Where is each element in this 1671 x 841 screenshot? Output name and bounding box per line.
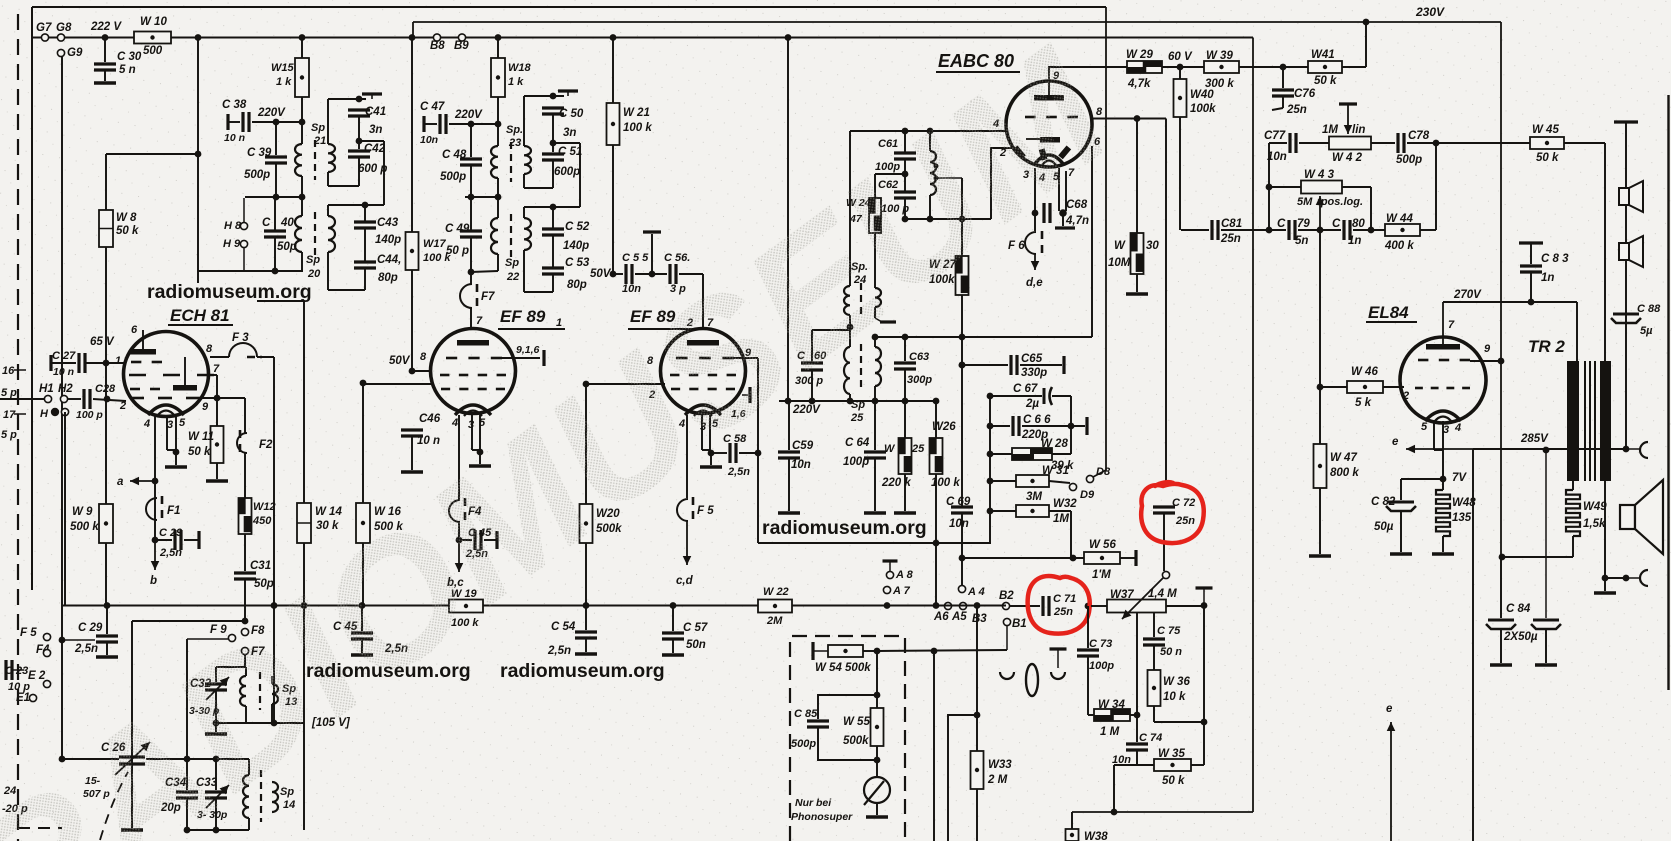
wire W18 lower lead [497,97,499,124]
wire C48 column [470,124,472,157]
el84 pin3 stem [1442,421,1444,479]
ef1 pin4 stem [458,415,460,500]
terminal F7 term [241,647,248,654]
node Sp24 feed [785,34,792,41]
svg-text:C 6 6: C 6 6 [1023,414,1051,426]
svg-text:W12: W12 [253,501,276,513]
svg-text:C: C [1277,218,1286,230]
wire A8 stem [889,561,891,571]
wire q into tube [1006,131,1041,139]
wire C47 to 220V [449,123,498,125]
node W26 low [933,540,940,547]
wire C52-C53 [552,235,554,268]
wire W32 left [990,510,1016,512]
svg-text:2µ: 2µ [1025,398,1039,410]
wire 50V to C55 [613,273,623,275]
svg-text:500: 500 [143,45,163,57]
svg-text:50 k: 50 k [188,446,211,458]
contact F6 [1025,232,1036,254]
node C57 bus [670,602,677,609]
terminal G8 [57,34,64,41]
wire osc bottom line [216,722,304,724]
capacitor C33 [205,790,227,793]
capacitor C74 [1126,742,1148,745]
wire W38 riser [1071,812,1073,829]
wire C66 left [990,425,1010,427]
node C29low link [59,637,66,644]
svg-text:25n: 25n [1286,104,1307,116]
node W26 top [933,398,940,405]
node bottom return junction [1111,809,1118,816]
capacitor C32 [205,682,227,685]
node tap2 [934,176,939,181]
svg-text:2 M: 2 M [987,774,1008,786]
cathode EABC80 [1034,155,1064,165]
terminal E1 [29,694,36,701]
resistor W37 volume pot [1107,600,1166,613]
wire sec2 top lead [327,205,329,216]
capacitor C83 [1520,264,1542,267]
capacitor C61 [894,151,916,154]
wire rail2 top link [553,142,580,144]
node C41 top [356,96,363,103]
capacitor C84 left [1488,619,1514,622]
wire rail top link [359,140,384,142]
node C61 top [902,128,909,135]
C29b end bar [197,531,200,549]
wire C43 upper [364,205,366,222]
wire C45 lead low [361,606,363,631]
wire C26 link [62,758,119,760]
wire C67 left [990,395,1042,397]
svg-text:17: 17 [3,409,16,421]
wire F2 column upper [244,398,246,433]
wire x1071 rail [1070,396,1072,454]
wire C29b bar link [184,539,199,541]
svg-text:40: 40 [280,217,294,229]
cathode EF89-2 [685,405,721,415]
wire pin7 out [214,374,217,376]
bar top C50 [558,89,578,92]
node C67 left [987,393,994,400]
wire can1 low top link [328,204,384,206]
wire main supply bus y37 [32,37,1253,39]
ef2 pin3 stem [701,415,703,450]
wire x1166 drop [1165,119,1167,482]
wire C30 lead [104,38,106,63]
arrow b [154,540,156,570]
svg-text:C 88: C 88 [1637,303,1661,315]
svg-text:80: 80 [1352,218,1365,230]
wire F9 link [187,638,229,640]
capacitor C65 [1009,355,1012,375]
inductor osc coil [930,151,936,195]
node C63 x337 [902,334,909,341]
svg-text:C 23: C 23 [5,665,28,677]
svg-text:C78: C78 [1408,130,1430,142]
transformer TR2 secondary [1600,361,1611,481]
svg-text:B2: B2 [999,590,1014,602]
wire C46 lower [411,436,413,470]
eabc pin9 stem [1048,66,1050,95]
wire W16 to 50V [363,382,412,384]
svg-text:W49: W49 [1583,501,1607,513]
capacitor C67 electrolytic [1043,388,1046,404]
terminal H1 [44,395,51,402]
wire x132 vertical [131,621,133,828]
ef2 cathode ground lead [710,453,712,465]
wire bar stem x1204 [1203,588,1205,605]
node tap1 [934,164,939,169]
tube EF89-1 envelope [431,329,516,414]
resistor W39 [1204,61,1239,73]
wire C54 ground lead [585,638,587,652]
wire C56 to pin7 [679,273,703,275]
bar W56 end [1134,550,1137,566]
wire C76 tail [1272,108,1283,110]
node W14 bus [301,602,308,609]
wire frame right vertical to D8 [1105,7,1107,470]
wire H9 drop [243,247,245,271]
node wiper top [1165,574,1167,576]
resistor W8 [99,210,113,247]
node W8 tee [195,151,202,158]
wire C48 lower [470,165,472,197]
arrow W43 wiper [1319,196,1321,230]
svg-text:W 39: W 39 [1206,50,1233,62]
resistor W26 [930,438,943,474]
wire C60 bottom lead [811,370,813,401]
svg-text:W 46: W 46 [1351,366,1378,378]
wire osc2 bottom lead [245,706,247,723]
resistor W54 [828,645,863,657]
wire socket mid stem [1057,649,1059,668]
bar top C41 [362,92,382,95]
node 65V [103,360,110,367]
svg-text:25: 25 [911,443,925,455]
svg-text:C 47: C 47 [420,101,445,113]
wire W27 upper [961,178,963,258]
resistor W43 pot [1301,181,1342,194]
svg-text:500p: 500p [791,738,816,750]
wire C76 lower lead [1282,96,1284,108]
wire can1 bottom line [198,270,303,272]
eabc pin7 stem [1065,171,1067,211]
svg-text:100 k: 100 k [623,122,652,134]
wire el84 grid lead [1383,386,1404,388]
ef1 pin3 stem [471,415,473,450]
svg-text:C 82: C 82 [1371,496,1396,508]
node W34 right [1134,712,1141,719]
wire bar riser [651,234,653,274]
capacitor C46 [401,428,423,431]
node C78 out [1433,140,1440,147]
wire C49 lower [470,237,472,272]
wire pin8 ef1 [412,370,432,372]
node C58 right [755,450,762,457]
wire W8 top link [106,153,198,155]
wire eabc pin2 return [991,148,1013,219]
svg-text:1n: 1n [1541,272,1554,284]
node W21 feed [610,34,617,41]
inductor Sp21 secondary [328,144,335,172]
terminal E2 [43,680,50,687]
wire band block top [146,758,249,760]
terminal B1 [1003,618,1010,625]
wire can2 low top link [524,206,580,208]
svg-text:10 n: 10 n [53,366,74,378]
resistor W9 [99,504,113,543]
dashed rotor C26 [100,772,128,840]
node 222V [102,34,109,41]
wire 230V right drop x1501 [1500,22,1502,557]
wire C53 lower [552,274,554,292]
ground C82 [1390,552,1412,556]
wire C32 ground stem [215,723,217,732]
svg-text:C 64: C 64 [845,437,870,449]
resistor W56 [1084,552,1120,564]
wire sec2 bottom link [328,289,365,291]
terminal A5 [959,602,966,609]
terminal G9 [57,49,64,56]
tube EABC80 envelope [1006,81,1092,167]
svg-text:230V: 230V [1415,5,1445,19]
core Sp13 [259,672,261,710]
resistor W20 [580,504,593,543]
node C41C42 [356,138,363,145]
wire W43 right lead [1342,186,1371,188]
svg-text:C 29: C 29 [159,527,183,539]
capacitor C47 input bar [422,116,425,132]
capacitor C42 [348,149,370,152]
wire pickup ground lead [876,803,878,815]
bar above x1204 [1196,586,1213,589]
underline EF89-2 [628,328,695,330]
ef2 pin4 stem [686,415,688,498]
wire sec1 top lead [327,99,329,144]
wire sec link y301 [257,300,304,302]
node C68 left [1032,210,1039,217]
capacitor C79 [1287,220,1290,240]
underline ECH81 [168,324,233,326]
resistor W55 [871,708,884,746]
wire W36 bottom link [1154,721,1204,723]
wire W24 upper [874,174,876,198]
wire sec3 bottom lead [523,174,525,188]
svg-text:10 n: 10 n [417,435,440,447]
svg-text:2X50µ: 2X50µ [1503,631,1538,643]
annotation red circle C72 [1141,482,1204,543]
svg-text:W 55: W 55 [843,716,870,728]
capacitor C47 [438,114,441,134]
svg-text:10n: 10n [791,459,811,471]
wire Sp22 primary top [497,197,499,218]
svg-text:W 36: W 36 [1163,676,1190,688]
diode plate 2 [1039,148,1048,160]
svg-text:140p: 140p [375,234,401,246]
wire W26 upper [935,401,937,438]
pin35 join [167,449,176,451]
wire x1269 rail [1268,143,1270,230]
wire W55 upper [876,651,878,710]
capacitor C29 low [96,634,118,637]
wire W54 right lead [863,650,877,652]
anode bar EF89-2 [687,340,719,346]
svg-text:16: 16 [2,365,15,377]
node Sp13 x274 [271,720,278,727]
core Sp22 [510,214,512,258]
svg-text:W33: W33 [988,759,1012,771]
wire H8 riser [243,198,245,223]
wire band block bottom [187,829,249,831]
arrow a [130,480,155,482]
pin3 stem [166,416,168,450]
ground C45 low [351,653,373,657]
svg-text:W40: W40 [1190,89,1214,101]
terminal B2 [1002,602,1009,609]
svg-text:D9: D9 [1080,489,1095,501]
capacitor C55 [624,264,627,284]
resistor W28 [1012,448,1052,460]
grid row 2 [129,374,146,377]
svg-text:F 5: F 5 [20,627,37,639]
eabc pin5 stem [1058,168,1060,211]
node C34 low [184,827,191,834]
svg-text:100 p: 100 p [76,409,103,421]
resistor W24 [869,198,881,233]
wire C34 lower [186,798,188,830]
svg-text:A 8: A 8 [895,569,914,581]
wire C78 right [1407,142,1436,144]
node pin2-C62 [902,216,909,223]
svg-text:e: e [1392,436,1399,448]
wire C42 lower [358,157,360,186]
contact F4 [449,500,460,522]
svg-text:1 M: 1 M [1100,726,1120,738]
wire pin9 line [1049,66,1127,68]
svg-text:50 k: 50 k [116,225,139,237]
svg-text:25n: 25n [1175,515,1195,527]
svg-text:W 35: W 35 [1158,748,1185,760]
tube ECH81 envelope [124,332,209,417]
node x198 feed [195,34,202,41]
wire F2 to W12 [244,453,246,498]
svg-text:5M ↓pos.log.: 5M ↓pos.log. [1297,196,1363,208]
svg-text:135: 135 [1452,512,1472,524]
node W18 feed [495,34,502,41]
wire main bottom bus [63,605,1006,607]
wire C57 lead [672,606,674,631]
svg-text:C42: C42 [364,143,386,155]
pin5 stem [175,416,177,450]
wire C79 to C80 [1298,229,1341,231]
svg-text:800 k: 800 k [1330,467,1359,479]
tube EF89-2 envelope [661,329,746,414]
capacitor C51 [542,152,564,155]
wire C29low ground lead [106,642,108,655]
node 230V tap [1363,19,1370,26]
svg-text:C 5 5: C 5 5 [622,252,649,264]
wire W41 to 230V [1342,66,1366,68]
svg-text:600 p: 600 p [358,163,387,175]
wire C29low lead [106,606,108,634]
svg-text:H 9: H 9 [223,238,241,250]
wire C77 to W42 [1299,142,1329,144]
wire x1204 drop [1203,606,1205,722]
svg-text:W 54 500k: W 54 500k [815,662,871,674]
svg-text:10n: 10n [949,518,969,530]
wire Sp24 bar link [875,318,882,322]
wire C39 column [275,122,277,155]
wire EF89-1 grid rail [362,383,433,385]
capacitor C62 [894,190,916,193]
terminal H9 [240,240,247,247]
resistor W29 [1127,61,1162,73]
resistor W48 [1436,490,1450,536]
resistor W49 [1566,490,1580,536]
inductor Sp23 primary [491,146,498,178]
wire C60 top link [812,329,850,331]
svg-text:300p: 300p [907,374,932,386]
node can2 mid right [495,194,502,201]
node C60 bottom [809,398,816,405]
resistor W31 [1016,475,1049,487]
wire W31 left [990,480,1016,482]
terminal H10 [61,408,68,415]
terminal B9 [458,34,465,41]
core Sp21 [314,140,316,180]
contact F1 [146,498,157,520]
wire C82 lower [1400,511,1402,552]
wire W32 right [1049,510,1071,512]
wire riser to W35 line [1113,765,1115,812]
svg-text:C63: C63 [909,351,929,363]
capacitor C56 [668,264,671,284]
svg-text:E 2: E 2 [28,670,46,682]
wire C84R lower [1545,629,1547,663]
svg-text:Sp: Sp [311,122,325,134]
node C26 link [59,756,66,763]
node W16 bus [359,602,366,609]
wire pin7 drop [216,375,218,398]
node ef1 cathode [477,449,484,456]
wire Sp24 right bottom [874,307,876,318]
node W33 tap [974,712,981,719]
terminal D8 [1086,475,1093,482]
capacitor C49 [460,229,482,232]
svg-text:50V: 50V [389,355,411,367]
arrow bc [458,540,460,572]
node W27 x337 [959,334,966,341]
wire x274 lower [273,605,275,723]
svg-text:Sp: Sp [306,254,320,266]
wire F9 drop [186,639,188,759]
arrow W42 wiper [1347,104,1349,134]
bar W42 wiper [1339,102,1357,105]
svg-text:100p: 100p [843,456,869,468]
svg-text:4: 4 [451,417,458,429]
capacitor C28 [82,389,85,409]
arrow C33 var [206,785,229,808]
ef1 pin5 stem [479,415,481,450]
wire can2 mid link [465,196,498,198]
terminal F4 [43,649,50,656]
wire C23 lead [12,669,24,671]
ground C84 right [1535,663,1557,667]
wire W40 lower lead [1179,117,1181,230]
node 50V ef1 [409,368,416,375]
node 60V [1177,64,1184,71]
